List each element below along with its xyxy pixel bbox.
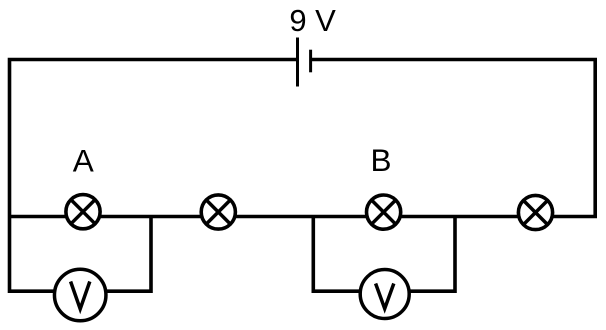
battery BT1 long plate: [296, 38, 299, 87]
lamp L4: [518, 195, 552, 229]
wire: top-right segment + right vertical + main lamp rail: [10, 60, 596, 217]
svg-text:A: A: [73, 142, 94, 178]
svg-text:B: B: [370, 142, 391, 178]
svg-text:9 V: 9 V: [289, 3, 336, 38]
voltmeter V2 (across lamp B): [360, 270, 409, 319]
wire: voltmeter V2 parallel branch: [313, 216, 455, 291]
wire: voltmeter V1 right branch: [80, 216, 151, 291]
battery BT1 short plate: [309, 50, 312, 73]
wire: top-left segment + left vertical + bottom-left to voltmeter V1: [10, 60, 298, 292]
lamp L2: [201, 195, 235, 229]
voltmeter V1 (across lamp A): [54, 269, 106, 321]
lamp A (L1): [66, 195, 100, 229]
lamp B (L3): [367, 195, 401, 229]
